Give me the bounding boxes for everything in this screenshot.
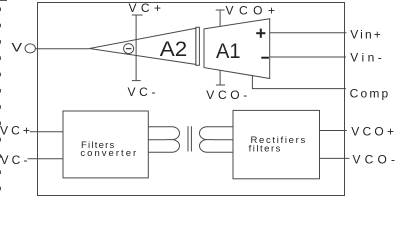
svg-text:filters: filters (249, 144, 283, 155)
svg-text:VCO-: VCO- (353, 153, 396, 167)
svg-text:VCO-: VCO- (206, 88, 247, 102)
svg-text:VC+: VC+ (0, 123, 30, 137)
svg-text:VCO+: VCO+ (351, 125, 394, 139)
svg-text:Comp: Comp (350, 87, 389, 101)
svg-text:converter: converter (80, 148, 137, 159)
svg-text:V: V (12, 40, 23, 54)
svg-text:Vin-: Vin- (350, 51, 382, 65)
svg-text:Vin+: Vin+ (350, 27, 381, 41)
svg-text:VCO+: VCO+ (226, 3, 276, 17)
svg-text:A2: A2 (160, 37, 188, 61)
svg-text:VC-: VC- (128, 85, 156, 99)
svg-text:VC-: VC- (1, 153, 28, 167)
svg-text:VC+: VC+ (129, 1, 162, 15)
svg-text:A1: A1 (216, 39, 241, 63)
